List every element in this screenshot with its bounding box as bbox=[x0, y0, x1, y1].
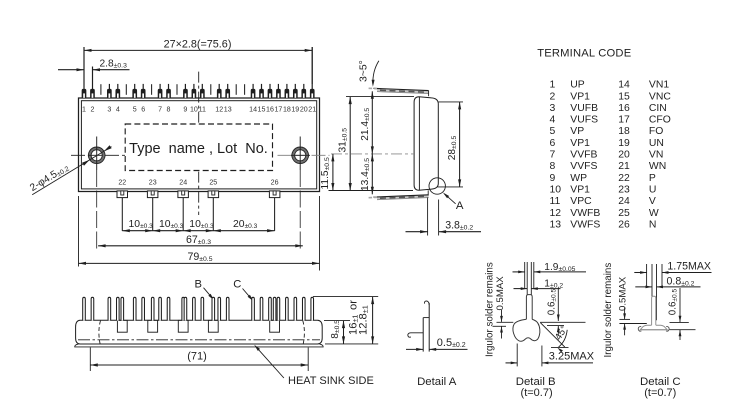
svg-text:B: B bbox=[194, 278, 201, 290]
svg-text:26: 26 bbox=[271, 179, 279, 187]
svg-text:0.5MAX: 0.5MAX bbox=[495, 276, 506, 311]
svg-text:VUFB: VUFB bbox=[570, 103, 598, 114]
detail A caption bbox=[417, 376, 457, 388]
side view body bbox=[414, 97, 438, 191]
side view centerline bbox=[331, 153, 414, 155]
detail B 45 degree chamfer bbox=[540, 323, 570, 353]
svg-text:A: A bbox=[456, 200, 464, 212]
svg-text:19: 19 bbox=[291, 106, 299, 114]
pin 19 (top lead) bbox=[293, 84, 298, 98]
side view top lead row bbox=[369, 88, 429, 96]
svg-text:23: 23 bbox=[618, 185, 630, 196]
svg-text:11: 11 bbox=[550, 196, 561, 207]
svg-text:21: 21 bbox=[308, 106, 316, 114]
pin 1 (top lead) bbox=[82, 47, 87, 98]
pin 10 (top lead) bbox=[192, 84, 197, 98]
svg-text:4: 4 bbox=[116, 106, 120, 114]
heat sink base bar bbox=[75, 320, 324, 347]
detail B dimension 1±0.2 bbox=[514, 278, 564, 290]
svg-text:14: 14 bbox=[618, 80, 630, 91]
svg-text:HEAT SINK SIDE: HEAT SINK SIDE bbox=[288, 375, 374, 387]
dimension 11.5±0.5 bbox=[320, 154, 334, 191]
pin 3 (top lead) bbox=[107, 84, 112, 98]
svg-text:Type name , Lot No.: Type name , Lot No. bbox=[129, 141, 268, 157]
svg-text:17: 17 bbox=[618, 115, 630, 126]
bottom pin numbers 22-26 bbox=[118, 179, 278, 187]
unused lead positions (short ticks) bbox=[101, 84, 245, 95]
svg-text:VP1: VP1 bbox=[570, 91, 590, 102]
svg-text:V: V bbox=[649, 196, 656, 207]
dimension 28±0.5 bbox=[438, 102, 464, 187]
detail C solder foot bbox=[638, 325, 669, 331]
svg-text:3: 3 bbox=[107, 106, 111, 114]
detail B extension lines bbox=[525, 262, 534, 295]
svg-text:VN: VN bbox=[649, 150, 663, 161]
detail C dimension 0.6±0.5 bbox=[667, 288, 681, 340]
pin 16 (top lead) bbox=[268, 84, 273, 98]
svg-text:Irgulor solder remains: Irgulor solder remains bbox=[485, 262, 496, 357]
svg-text:VP1: VP1 bbox=[570, 185, 590, 196]
pin 23 (bottom lead) bbox=[147, 191, 158, 231]
svg-text:8: 8 bbox=[167, 106, 171, 114]
svg-text:U: U bbox=[649, 185, 657, 196]
svg-text:FO: FO bbox=[649, 126, 663, 137]
label C with leader bbox=[233, 278, 253, 301]
pin 24 (bottom lead) bbox=[178, 191, 189, 231]
detail B solder remains note bbox=[485, 262, 507, 357]
detail A lead outline bbox=[408, 301, 429, 352]
pin 26 (bottom lead) bbox=[269, 191, 280, 231]
svg-text:22: 22 bbox=[118, 179, 126, 187]
svg-text:CIN: CIN bbox=[649, 103, 667, 114]
svg-text:(t=0.7): (t=0.7) bbox=[521, 387, 553, 399]
mounting hole right bbox=[278, 137, 330, 249]
svg-text:15: 15 bbox=[618, 91, 630, 102]
pin 7 (top lead) bbox=[158, 84, 163, 98]
svg-text:or: or bbox=[347, 300, 359, 310]
detail B board surface lines bbox=[497, 321, 586, 323]
detail B lead bbox=[526, 295, 532, 321]
hidden hole lines in base bbox=[99, 321, 305, 346]
svg-text:24: 24 bbox=[618, 196, 630, 207]
svg-text:1.75MAX: 1.75MAX bbox=[667, 261, 711, 273]
svg-text:19: 19 bbox=[618, 138, 630, 149]
svg-text:16: 16 bbox=[618, 103, 630, 114]
detail A dimension 0.5±0.2 bbox=[406, 337, 468, 351]
svg-text:11: 11 bbox=[199, 106, 206, 114]
pin 13 (top lead) bbox=[225, 84, 230, 98]
detail C dimension 1.75MAX bbox=[634, 261, 711, 274]
svg-text:VWFS: VWFS bbox=[570, 220, 600, 231]
molded stand-offs of bottom leads bbox=[117, 320, 279, 332]
svg-text:9: 9 bbox=[550, 173, 556, 184]
HEAT SINK SIDE label with leader bbox=[254, 345, 374, 387]
svg-text:VN1: VN1 bbox=[649, 80, 669, 91]
svg-text:13: 13 bbox=[224, 106, 232, 114]
svg-text:15: 15 bbox=[258, 106, 266, 114]
pin 12 (top lead) bbox=[217, 84, 222, 98]
svg-text:VUFS: VUFS bbox=[570, 115, 598, 126]
svg-text:3~5°: 3~5° bbox=[358, 60, 369, 82]
svg-text:VWFB: VWFB bbox=[570, 208, 600, 219]
pin 15 (top lead) bbox=[259, 84, 264, 98]
pin 8 (top lead) bbox=[166, 84, 171, 98]
svg-text:6: 6 bbox=[550, 138, 556, 149]
svg-text:N: N bbox=[649, 220, 657, 231]
dimensions 10/10/10/20 between bottom pins bbox=[122, 219, 274, 232]
svg-text:UP: UP bbox=[570, 80, 585, 91]
svg-text:VP1: VP1 bbox=[570, 138, 590, 149]
dimension (71) bbox=[90, 348, 308, 372]
detail B solder blob bbox=[513, 319, 540, 341]
svg-text:7: 7 bbox=[550, 150, 556, 161]
type name / lot no. box bbox=[125, 124, 272, 171]
pin 17 (top lead) bbox=[276, 84, 281, 98]
svg-text:8: 8 bbox=[550, 161, 556, 172]
label B with leader bbox=[194, 278, 214, 300]
angle 3~5 degrees bbox=[358, 60, 379, 87]
svg-text:7: 7 bbox=[158, 106, 162, 114]
svg-text:(71): (71) bbox=[187, 351, 207, 363]
svg-text:WN: WN bbox=[649, 161, 666, 172]
pin 5 (top lead) bbox=[132, 84, 137, 98]
side view bottom lead row bbox=[369, 190, 429, 199]
mounting hole left (2-phi4.5) bbox=[71, 137, 125, 249]
terminal code table bbox=[537, 48, 671, 231]
svg-text:27×2.8(=75.6): 27×2.8(=75.6) bbox=[164, 38, 232, 50]
svg-text:VPC: VPC bbox=[570, 196, 592, 207]
svg-text:21: 21 bbox=[618, 161, 630, 172]
svg-text:VNC: VNC bbox=[649, 91, 671, 102]
dimension 67±0.3 bbox=[98, 234, 303, 247]
svg-text:UN: UN bbox=[649, 138, 664, 149]
pin 6 (top lead) bbox=[141, 84, 146, 98]
svg-text:2: 2 bbox=[550, 91, 556, 102]
dimension 13.4±0.5 bbox=[360, 154, 374, 194]
svg-text:TERMINAL CODE: TERMINAL CODE bbox=[537, 48, 631, 60]
svg-text:1: 1 bbox=[82, 106, 86, 114]
pin 18 (top lead) bbox=[285, 84, 290, 98]
detail C caption bbox=[640, 376, 681, 399]
svg-text:20: 20 bbox=[300, 106, 308, 114]
dimension 79±0.5 bbox=[79, 196, 320, 271]
detail B dimension 3.25MAX bbox=[506, 344, 595, 367]
pin 9 (top lead) bbox=[183, 84, 188, 98]
svg-text:23: 23 bbox=[149, 179, 157, 187]
pin 22 (bottom lead) bbox=[117, 191, 128, 231]
svg-text:24: 24 bbox=[179, 179, 187, 187]
svg-text:Detail A: Detail A bbox=[417, 376, 457, 388]
svg-text:22: 22 bbox=[618, 173, 630, 184]
lead pins seen from heat sink side bbox=[83, 297, 314, 320]
pin 21 (top lead) bbox=[310, 47, 315, 98]
detail B dimension 0.6±0.5 bbox=[547, 288, 564, 336]
detail A circle on side view bbox=[429, 178, 464, 212]
leader 2-phi4.5±0.2 bbox=[28, 145, 111, 195]
dimension 31±0.5 bbox=[329, 97, 415, 191]
svg-text:17: 17 bbox=[274, 106, 282, 114]
svg-text:1: 1 bbox=[550, 80, 556, 91]
svg-text:5: 5 bbox=[550, 126, 556, 137]
svg-text:4: 4 bbox=[550, 115, 556, 126]
detail C extension lines bbox=[647, 264, 662, 320]
svg-text:2: 2 bbox=[91, 106, 95, 114]
svg-text:12: 12 bbox=[215, 106, 223, 114]
svg-text:(t=0.7): (t=0.7) bbox=[644, 387, 676, 399]
svg-text:5: 5 bbox=[133, 106, 137, 114]
detail C solder remains note bbox=[603, 263, 630, 358]
svg-text:VVFS: VVFS bbox=[570, 161, 597, 172]
svg-text:25: 25 bbox=[618, 208, 630, 219]
svg-text:9: 9 bbox=[183, 106, 187, 114]
svg-text:P: P bbox=[649, 173, 656, 184]
pin 2 (top lead) bbox=[90, 67, 95, 98]
detail B caption bbox=[516, 376, 556, 399]
detail C lead bbox=[652, 296, 656, 325]
svg-text:0.5MAX: 0.5MAX bbox=[618, 276, 629, 311]
pin 14 (top lead) bbox=[251, 84, 256, 98]
svg-text:W: W bbox=[649, 208, 659, 219]
svg-text:14: 14 bbox=[249, 106, 257, 114]
vertical centerline bbox=[198, 72, 200, 215]
detail C board surface lines bbox=[619, 322, 695, 329]
svg-text:26: 26 bbox=[618, 220, 630, 231]
svg-text:VP: VP bbox=[570, 126, 584, 137]
svg-text:6: 6 bbox=[141, 106, 145, 114]
svg-text:10: 10 bbox=[550, 185, 562, 196]
pin 25 (bottom lead) bbox=[208, 191, 219, 231]
dimension 21.4±0.5 bbox=[360, 91, 374, 154]
module body outline bbox=[79, 98, 320, 192]
svg-text:10: 10 bbox=[190, 106, 198, 114]
detail C dimension 0.8±0.2 bbox=[635, 275, 700, 288]
pin 20 (top lead) bbox=[301, 84, 306, 98]
svg-text:3: 3 bbox=[550, 103, 556, 114]
svg-text:18: 18 bbox=[283, 106, 291, 114]
svg-text:18: 18 bbox=[618, 126, 630, 137]
svg-text:13: 13 bbox=[550, 220, 562, 231]
svg-text:WP: WP bbox=[570, 173, 587, 184]
dimension 16±1 or 12.8±1 bbox=[313, 297, 378, 344]
svg-text:CFO: CFO bbox=[649, 115, 671, 126]
dimension 8±0.5 bbox=[324, 320, 350, 344]
dimension 2.8±0.3 bbox=[58, 58, 130, 71]
svg-text:C: C bbox=[233, 278, 241, 290]
detail B dimension 1.9±0.05 bbox=[513, 262, 587, 274]
dimension 3.8±0.2 bbox=[406, 198, 482, 236]
svg-text:VVFB: VVFB bbox=[570, 150, 597, 161]
svg-text:3.25MAX: 3.25MAX bbox=[549, 350, 595, 362]
svg-text:16: 16 bbox=[266, 106, 274, 114]
svg-text:25: 25 bbox=[209, 179, 217, 187]
svg-text:20: 20 bbox=[618, 150, 630, 161]
dimension 27x2.8(=75.6) bbox=[84, 38, 312, 84]
pin 11 (top lead) bbox=[200, 84, 205, 98]
top pin numbers 1-21 bbox=[82, 106, 316, 114]
svg-text:12: 12 bbox=[550, 208, 562, 219]
pin 4 (top lead) bbox=[115, 84, 120, 98]
svg-text:Irgulor solder remains: Irgulor solder remains bbox=[603, 263, 614, 358]
